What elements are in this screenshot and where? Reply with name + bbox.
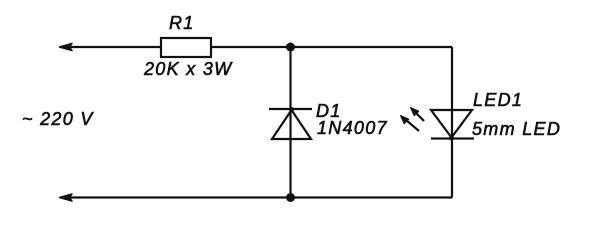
wire: bottom rail (left terminal to node B to right branch) — [60, 194, 453, 201]
svg-text:LED1: LED1 — [473, 90, 523, 110]
diode D1 — [269, 107, 312, 139]
svg-text:5mm LED: 5mm LED — [472, 119, 561, 139]
svg-text:~ 220 V: ~ 220 V — [22, 109, 94, 129]
LED LED1 (with emission arrows) — [401, 108, 475, 141]
wire: top rail (left terminal to node A to right branch) — [60, 44, 453, 51]
resistor R1 — [161, 38, 211, 57]
wire: right branch (top rail down to bottom rail) — [451, 47, 453, 198]
svg-text:R1: R1 — [169, 13, 195, 33]
wire: middle branch (node A down to node B) — [289, 47, 291, 198]
svg-text:1N4007: 1N4007 — [317, 118, 388, 138]
svg-text:20K x 3W: 20K x 3W — [143, 59, 233, 79]
junction node A (top) — [286, 43, 295, 52]
junction node B (bottom) — [286, 193, 295, 202]
